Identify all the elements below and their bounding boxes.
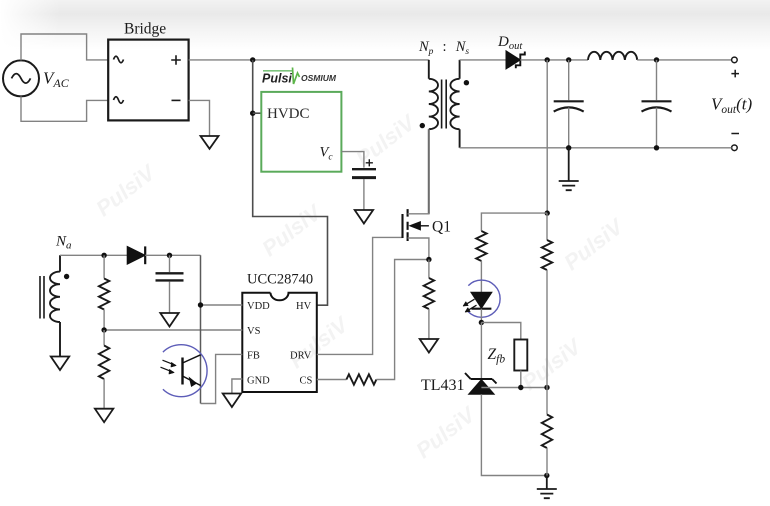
node divider tap (544, 385, 549, 390)
node HVDC tap (250, 111, 255, 116)
HV feed wire down from top rail (253, 60, 328, 305)
output inductor (588, 52, 637, 60)
ground below sense resistor (420, 339, 438, 353)
bottom output rail (460, 147, 732, 149)
resistor R_lower divider (542, 388, 552, 476)
secondary phase dot (464, 80, 469, 85)
optocoupler LED circle (468, 280, 500, 317)
wire inductor to + terminal (637, 59, 731, 61)
wire aux cap to ground (169, 282, 171, 313)
ground below Na (51, 357, 69, 371)
node Na divider top (101, 253, 106, 258)
svg-text:CS: CS (300, 376, 313, 387)
bridge - terminal (172, 99, 181, 101)
resistor R_sense (424, 278, 434, 309)
svg-text:Np : Ns: Np : Ns (418, 39, 469, 57)
svg-text:HV: HV (296, 301, 312, 312)
transformer primary winding (429, 60, 438, 214)
watermark 7 (411, 402, 480, 464)
svg-text:UCC28740: UCC28740 (247, 272, 313, 288)
ground below C_vc (355, 210, 373, 224)
svg-text:Pulsi: Pulsi (262, 72, 292, 86)
LED diode (471, 292, 492, 308)
node Q1 source (426, 257, 431, 262)
watermark 2 (257, 200, 326, 262)
aux phase dot (64, 274, 69, 279)
node secondary rail A (545, 57, 550, 62)
PulsiV OSMIUM logo (262, 68, 337, 86)
wire resistor to LED (480, 261, 482, 292)
aux winding Na (50, 255, 60, 356)
opto light arrows (161, 360, 177, 374)
wire node to LED branch (481, 213, 547, 231)
capacitor C1 (554, 101, 584, 111)
node on top rail (250, 57, 255, 62)
svg-text:VDD: VDD (247, 301, 270, 312)
opto transistor (183, 355, 201, 387)
resistor R_led (476, 231, 486, 261)
wire Zfb to ref rail (520, 371, 522, 388)
wire secondary to diode (460, 59, 506, 61)
svg-text:Q1: Q1 (432, 219, 451, 236)
C_vc plus sign (366, 159, 373, 166)
earth ground below output (559, 148, 579, 190)
resistor R_cs horizontal (346, 374, 376, 384)
wire Vc to capacitor (341, 152, 364, 168)
diode D_aux (127, 246, 145, 264)
optocoupler transistor circle (163, 345, 207, 397)
wire VS pin (104, 329, 242, 331)
svg-text:Zfb: Zfb (488, 346, 506, 366)
wire AC bottom to bridge input (21, 96, 108, 121)
wire GND pin (232, 379, 242, 394)
wire bridge minus to ground (189, 100, 210, 136)
svg-text:TL431: TL431 (421, 377, 465, 394)
transformer core (442, 80, 447, 129)
watermark 3 (351, 110, 420, 172)
node Zfb bottom (518, 385, 523, 390)
watermark 6 (517, 334, 586, 396)
svg-text:GND: GND (247, 376, 270, 387)
wire cap C2 bottom (656, 108, 658, 148)
earth ground bottom right (537, 476, 557, 499)
diode Dout (506, 51, 525, 69)
bridge + terminal (171, 55, 181, 65)
transformer secondary winding (450, 60, 459, 148)
wire cap C1 bottom (568, 108, 570, 148)
wire diode to VDD riser (145, 254, 200, 256)
node rail cap2 bottom (654, 145, 659, 150)
VDD riser wire (200, 255, 202, 403)
op-amp U1 UCC28740 box (242, 293, 316, 392)
TL431 cathode wire (480, 323, 482, 380)
wire CS resistor to source node (376, 260, 429, 380)
label - output (731, 133, 739, 135)
bridge ~ input 1 (114, 56, 124, 63)
wire sense resistor to ground (428, 309, 430, 339)
svg-text:HVDC: HVDC (267, 106, 310, 122)
node LED anode (479, 320, 484, 325)
wire cap C2 top (656, 60, 658, 100)
ground below aux cap (160, 313, 178, 327)
primary phase dot (420, 123, 425, 128)
wire aux cap top (169, 255, 171, 272)
Zfb impedance box (514, 340, 527, 371)
wire DRV pin to gate (317, 237, 403, 354)
svg-text:Vc: Vc (320, 145, 334, 163)
watermark 1 (91, 160, 160, 222)
watermark 5 (284, 312, 353, 374)
aux winding core (40, 276, 44, 319)
ground below divider (95, 409, 113, 423)
bridge rectifier box (108, 40, 188, 121)
wire CS pin (317, 379, 347, 381)
node aux cap top (167, 253, 172, 258)
wire cap C1 top (568, 60, 570, 100)
node rail cap1 bottom (566, 145, 571, 150)
wire top rail bridge+ to transformer (189, 59, 429, 61)
svg-text:Na: Na (55, 234, 72, 252)
TL431 shunt regulator (465, 373, 497, 394)
ground GND pin (223, 394, 241, 408)
TL431 anode wire (481, 394, 546, 475)
transistor Q1 mosfet (403, 129, 429, 259)
watermark 4 (559, 214, 628, 276)
node VS tap (101, 327, 106, 332)
node cap1 top (566, 57, 571, 62)
wire C_vc to ground (363, 179, 365, 210)
wire diode to output node (520, 59, 588, 61)
resistor R_vs_top (99, 255, 109, 330)
wire node to sense resistor (428, 260, 430, 279)
capacitor C_vc plates (352, 168, 376, 170)
svg-text:Dout: Dout (497, 34, 523, 52)
node anode bottom (544, 473, 549, 478)
svg-text:DRV: DRV (290, 351, 312, 362)
svg-text:Bridge: Bridge (124, 21, 166, 38)
LED light arrows (463, 299, 477, 312)
wire node to Zfb (481, 323, 520, 340)
wire FB pin (201, 354, 243, 403)
svg-text:VS: VS (247, 326, 261, 337)
resistor R_vs_bottom (99, 330, 109, 409)
wire AC top to bridge input (21, 34, 108, 60)
TL431 ref rail (481, 387, 547, 389)
capacitor C2 (642, 101, 672, 111)
ground below bridge (201, 136, 219, 149)
label + output (731, 70, 739, 78)
HVDC green box (261, 92, 341, 172)
bridge ~ input 2 (114, 97, 124, 104)
resistor R_bias upper right (542, 213, 552, 387)
node inductor right (654, 57, 659, 62)
svg-text:VAC: VAC (43, 69, 70, 91)
wire node to HVDC box (253, 112, 262, 114)
node VDD tee (198, 302, 203, 307)
svg-text:OSMIUM: OSMIUM (301, 73, 337, 83)
svg-text:Vout(t): Vout(t) (711, 95, 752, 117)
wire VDD pin (201, 304, 243, 306)
node feedback top (545, 210, 550, 215)
svg-text:FB: FB (247, 351, 260, 362)
capacitor C_aux (156, 273, 184, 280)
output + terminal (732, 57, 738, 63)
wire Na top rail (60, 254, 127, 256)
wire LED to node (480, 309, 482, 323)
output - terminal (732, 145, 738, 151)
feedback sense vertical wire (546, 60, 548, 213)
AC source VAC (3, 60, 70, 96)
